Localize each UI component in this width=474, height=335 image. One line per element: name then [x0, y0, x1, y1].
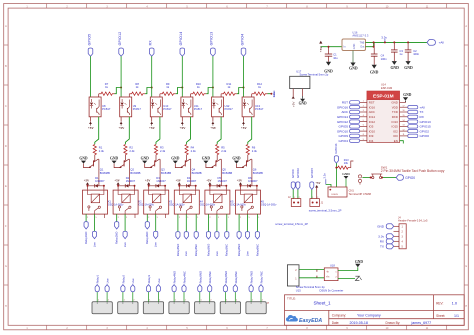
wire — [155, 155, 157, 160]
svg-text:2.4k: 2.4k — [221, 149, 227, 153]
wire collector — [190, 159, 192, 186]
svg-text:TXD: TXD — [392, 110, 398, 114]
svg-text:GND: GND — [391, 101, 397, 105]
wire relay pin — [146, 214, 148, 222]
svg-text:Live: Live — [245, 251, 249, 256]
diode D6 1N4007 — [241, 176, 259, 188]
svg-text:Terminal 3P 3.5MM: Terminal 3P 3.5MM — [349, 192, 371, 196]
svg-text:GPIO15: GPIO15 — [420, 125, 431, 129]
svg-text:Relay1NO: Relay1NO — [84, 232, 88, 244]
svg-text:+5V: +5V — [114, 179, 120, 183]
net flag Live — [105, 285, 109, 292]
svg-text:IO15: IO15 — [392, 125, 399, 129]
net flag RX — [149, 48, 154, 56]
net flag GPIO14 — [180, 48, 185, 56]
svg-text:100n: 100n — [381, 57, 387, 61]
pin 17 VDD — [392, 105, 398, 109]
svg-text:Screw Terminal 5mm 2p: Screw Terminal 5mm 2p — [300, 72, 329, 76]
wire — [292, 190, 294, 199]
svg-text:1N4007: 1N4007 — [248, 179, 258, 183]
svg-text:1N4007: 1N4007 — [95, 179, 105, 183]
svg-text:GPIO16: GPIO16 — [334, 143, 338, 154]
svg-text:5: 5 — [187, 217, 188, 219]
net flag RX (J4) — [380, 239, 394, 244]
wire — [124, 155, 126, 160]
transistor Q2 BC848B — [114, 159, 141, 175]
svg-text:1: 1 — [197, 217, 198, 219]
rev — [436, 301, 458, 306]
wire relay pin — [226, 214, 228, 232]
node column 1 net GPIO5 — [87, 34, 91, 46]
svg-text:EN: EN — [394, 139, 398, 143]
junction — [270, 93, 272, 95]
net flag Relay5NC — [208, 285, 212, 292]
svg-text:U18: U18 — [330, 263, 335, 267]
junction — [148, 185, 150, 187]
svg-text:1N4007: 1N4007 — [126, 179, 136, 183]
power +5V — [181, 122, 184, 124]
svg-text:Relay5NC: Relay5NC — [225, 244, 229, 256]
wire relay pin — [116, 214, 118, 222]
ground (C1) — [324, 62, 333, 74]
IC U14 ESP-01M module — [367, 91, 400, 143]
svg-text:1: 1 — [228, 217, 229, 219]
wire — [297, 190, 299, 199]
svg-text:1N4007: 1N4007 — [187, 179, 197, 183]
transistor Q1 BC848B — [84, 159, 111, 175]
power +5V — [89, 122, 92, 124]
capacitor C4 100n — [371, 42, 387, 64]
pin 3 ADC — [350, 110, 375, 114]
wire — [225, 186, 227, 190]
svg-text:TITLE:: TITLE: — [287, 297, 296, 301]
svg-text:BC848B: BC848B — [192, 171, 202, 175]
svg-text:RX: RX — [380, 240, 384, 244]
wire terminal pin — [148, 292, 150, 302]
svg-text:GND: GND — [110, 157, 119, 161]
wire relay pin — [238, 214, 240, 232]
wire relay pin — [185, 214, 187, 232]
wire terminal pin — [132, 292, 134, 302]
svg-text:2 Pin 3X4MM Tactile Tact Push: 2 Pin 3X4MM Tactile Tact Push Button cop… — [381, 169, 445, 173]
wire — [151, 56, 153, 97]
wire — [134, 186, 136, 190]
resistor R2 2.4k — [124, 144, 135, 154]
net label RST — [342, 101, 348, 105]
svg-text:2.4k: 2.4k — [129, 149, 135, 153]
resistor R13 10k — [336, 158, 349, 169]
svg-text:GND: GND — [403, 93, 411, 97]
svg-text:Relay3NO: Relay3NO — [145, 232, 149, 244]
svg-text:Live: Live — [154, 242, 158, 247]
connector terminal block J6 — [169, 302, 189, 314]
junction — [120, 87, 122, 89]
svg-text:Date:: Date: — [332, 321, 340, 325]
wire terminal pin — [106, 292, 108, 302]
net flag Relay3 — [146, 285, 150, 292]
net label GPIO4 — [339, 139, 349, 143]
wire relay pin — [195, 214, 197, 232]
svg-text:PC817: PC817 — [255, 107, 264, 111]
resistor R3 2.4k — [154, 144, 165, 154]
net flag Relay6NO — [237, 232, 241, 239]
svg-text:Sheet_1: Sheet_1 — [313, 301, 331, 306]
relay K4 G5Q-1A-005v — [174, 190, 216, 214]
wire — [209, 185, 211, 190]
svg-text:2: 2 — [317, 197, 318, 199]
svg-text:GPIO4: GPIO4 — [339, 139, 349, 143]
wire jog — [316, 270, 318, 272]
svg-text:+5V: +5V — [88, 126, 95, 130]
svg-text:1: 1 — [98, 300, 99, 302]
junction — [178, 185, 180, 187]
svg-text:GND: GND — [370, 70, 379, 74]
svg-text:ESP-01M: ESP-01M — [381, 86, 392, 90]
wire — [248, 117, 252, 144]
net label GPIO13 — [420, 120, 431, 124]
svg-text:Relay3: Relay3 — [147, 275, 151, 284]
transistor Q3 BC848B — [145, 159, 172, 175]
wire — [128, 94, 130, 97]
pin 12 IO2 — [393, 129, 398, 133]
connector U17 Screw Terminal 5mm 2p — [290, 69, 329, 97]
svg-text:+5V: +5V — [206, 179, 212, 183]
svg-text:2: 2 — [210, 300, 211, 302]
svg-text:BC848B: BC848B — [222, 171, 232, 175]
title block frame — [285, 295, 465, 326]
svg-text:Relay7NC: Relay7NC — [260, 271, 264, 283]
svg-text:GPIO9: GPIO9 — [291, 169, 295, 178]
net label ADC — [341, 110, 348, 114]
junction — [407, 41, 409, 43]
svg-text:1: 1 — [226, 300, 227, 302]
svg-text:PC817: PC817 — [133, 107, 142, 111]
relay K2 G5Q-1A-005v — [113, 190, 155, 214]
svg-text:ESP-01M: ESP-01M — [373, 93, 394, 99]
transistor Q4 BC848B — [175, 159, 202, 175]
pin 10 EN — [394, 139, 398, 143]
net flag (J2 pin1) — [291, 182, 295, 190]
connector terminal block J3 — [92, 302, 112, 314]
svg-text:2: 2 — [118, 217, 119, 219]
svg-text:GPIO2: GPIO2 — [420, 129, 430, 133]
wire terminal pin — [260, 292, 262, 302]
svg-text:2.4k: 2.4k — [160, 149, 166, 153]
svg-text:+5V: +5V — [292, 102, 296, 107]
svg-text:G5Q-1A-005v: G5Q-1A-005v — [261, 204, 277, 207]
wire — [326, 185, 331, 188]
svg-text:3.3v: 3.3v — [322, 173, 326, 179]
wire — [256, 186, 258, 190]
net flag Relay4NC — [182, 285, 186, 292]
net label GPIO9 — [339, 134, 349, 138]
op-amp U11 optocoupler PC817 — [181, 97, 203, 117]
wire — [311, 190, 313, 199]
wire — [98, 94, 100, 97]
title text — [287, 297, 296, 301]
wire relay pin — [256, 214, 258, 232]
svg-text:PC817: PC817 — [102, 107, 111, 111]
resistor R11 — [221, 82, 237, 95]
pin 1 RST — [350, 101, 375, 105]
junction — [134, 185, 136, 187]
wire — [321, 46, 342, 48]
junction — [212, 87, 214, 89]
net label GPIO0 — [420, 134, 430, 138]
diode D3 1N4007 — [149, 176, 167, 188]
wire — [181, 56, 183, 97]
svg-text:C: C — [465, 105, 467, 108]
svg-text:BC848B: BC848B — [253, 171, 263, 175]
node column 3 net RX — [149, 40, 153, 46]
svg-text:TAB: TAB — [360, 42, 365, 45]
wire terminal pin — [157, 292, 159, 302]
svg-text:VDD: VDD — [392, 105, 398, 109]
svg-text:6: 6 — [363, 125, 364, 127]
wire — [156, 117, 160, 144]
svg-text:1.0: 1.0 — [452, 301, 458, 306]
svg-text:GND: GND — [349, 67, 358, 71]
connector J2 screw_terminal_3.5mm_2P — [288, 196, 301, 207]
svg-text:2: 2 — [240, 217, 241, 219]
svg-text:10k: 10k — [344, 161, 349, 165]
svg-text:james_6977: james_6977 — [411, 321, 432, 325]
connector terminal block J9 — [246, 302, 266, 314]
svg-text:2: 2 — [179, 217, 180, 219]
wire — [120, 56, 122, 97]
svg-text:IO0: IO0 — [393, 134, 398, 138]
svg-text:GND: GND — [299, 102, 307, 106]
svg-text:1: 1 — [258, 217, 259, 219]
net flag Relay6NC — [255, 232, 259, 239]
net label 3.3v (CN1) — [322, 173, 326, 185]
wire terminal pin — [96, 292, 98, 302]
net label GPIO14 — [337, 115, 348, 119]
junction — [373, 41, 375, 43]
svg-text:Relay4NO: Relay4NO — [173, 271, 177, 283]
svg-text:Header-Female 0.54_1x5: Header-Female 0.54_1x5 — [398, 219, 428, 223]
net flag Relay3NO — [145, 222, 149, 229]
svg-text:Live: Live — [92, 242, 96, 247]
svg-text:+5V: +5V — [237, 179, 243, 183]
pin 8 IO9 — [350, 134, 374, 138]
svg-text:G: G — [465, 265, 467, 268]
svg-text:+5V: +5V — [315, 181, 321, 185]
wire — [145, 88, 152, 94]
label Screw Terminal 5mm 2p (U15) — [296, 285, 325, 292]
svg-text:GND: GND — [232, 157, 241, 161]
svg-text:DSUN: DSUN — [332, 194, 339, 196]
net flag Live — [184, 232, 188, 239]
svg-text:+5V: +5V — [176, 179, 182, 183]
power +5V (J1 pin2) — [315, 181, 321, 198]
svg-text:4: 4 — [363, 115, 364, 117]
diode D2 1N4007 — [118, 176, 136, 188]
svg-text:IO4: IO4 — [369, 139, 374, 143]
svg-text:GPIO12: GPIO12 — [337, 120, 348, 124]
wire relay pin — [124, 214, 126, 231]
voltage regulator U16 AMS1117-3.3 — [342, 30, 369, 62]
svg-text:1N4007: 1N4007 — [156, 179, 166, 183]
svg-text:2.4k: 2.4k — [191, 149, 197, 153]
wire — [240, 185, 242, 190]
relay K5 G5Q-1A-005v — [205, 190, 247, 214]
svg-text:H: H — [465, 305, 467, 308]
ground — [79, 157, 88, 164]
svg-text:GND: GND — [404, 66, 413, 70]
svg-text:IO2: IO2 — [393, 129, 398, 133]
svg-text:RX: RX — [149, 40, 153, 46]
svg-text:DSUN 5v Converter: DSUN 5v Converter — [320, 289, 344, 293]
ground (U16) — [349, 63, 358, 71]
wire — [115, 88, 122, 94]
svg-text:Live: Live — [106, 278, 110, 283]
wire — [299, 269, 324, 271]
wire collector — [159, 159, 161, 186]
svg-text:screw_terminal_3.5mm_2P: screw_terminal_3.5mm_2P — [309, 208, 342, 212]
svg-text:Relay6NO: Relay6NO — [237, 244, 241, 256]
svg-text:G5Q-1A-005v: G5Q-1A-005v — [169, 204, 185, 207]
net flag GPIO12 — [119, 48, 124, 56]
net flag 3.3v (J4) — [378, 234, 394, 239]
pin 11 IO0 — [393, 134, 398, 138]
svg-text:+All: +All — [420, 105, 426, 109]
op-amp U13 optocoupler PC817 — [242, 97, 264, 117]
relay K6 G5Q-1A-005v — [236, 190, 278, 214]
pin 2 IO16 — [350, 105, 376, 109]
wire terminal pin — [122, 292, 124, 302]
net flag GPIO16 — [334, 156, 338, 163]
svg-text:Your Company: Your Company — [357, 314, 381, 318]
net label GPIO2 — [420, 129, 430, 133]
resistor R7 — [99, 82, 115, 95]
ground (U17 pin2) — [302, 96, 304, 99]
svg-text:GND: GND — [141, 157, 150, 161]
svg-text:GPIO0: GPIO0 — [405, 176, 415, 180]
net flag Relay5NC — [225, 232, 229, 239]
power +5V — [120, 122, 123, 124]
label DSUN 5v Converter — [320, 289, 344, 293]
wire — [125, 117, 129, 144]
wire — [190, 94, 192, 97]
wire — [95, 117, 99, 144]
power +5V (U17 pin1) — [292, 96, 296, 107]
svg-text:GPIO10: GPIO10 — [296, 167, 300, 178]
svg-text:GND: GND — [355, 260, 363, 264]
svg-text:+5V: +5V — [180, 126, 187, 130]
svg-text:3.3v: 3.3v — [272, 92, 276, 98]
svg-text:ADC: ADC — [341, 110, 348, 114]
svg-text:2: 2 — [185, 300, 186, 302]
pin 15 RXD — [392, 115, 398, 119]
junction — [381, 177, 383, 179]
svg-text:11: 11 — [403, 134, 405, 136]
net flag 3.3v (resistor chain) — [272, 91, 276, 98]
diode D5 1N4007 — [210, 176, 228, 188]
svg-text:G5Q-1A-005v: G5Q-1A-005v — [139, 204, 155, 207]
svg-text:PC817: PC817 — [163, 107, 172, 111]
svg-text:GND: GND — [377, 225, 385, 229]
net flag GPIO5 — [88, 48, 93, 56]
net flag GPIO4 — [241, 48, 246, 56]
svg-text:RST: RST — [369, 101, 375, 105]
svg-text:7: 7 — [363, 129, 364, 131]
power +5V flag (regulator input) — [319, 41, 323, 52]
svg-text:H: H — [5, 305, 7, 308]
switch SW1 tact button — [362, 165, 444, 178]
svg-text:1: 1 — [175, 300, 176, 302]
junction — [335, 167, 337, 169]
transistor Q5 BC848B — [206, 159, 233, 175]
wire collector — [129, 159, 131, 186]
wire — [164, 186, 166, 190]
svg-text:1: 1 — [149, 300, 150, 302]
svg-text:GPIO16: GPIO16 — [337, 105, 348, 109]
wire relay pin — [177, 214, 179, 232]
svg-text:+5V: +5V — [241, 126, 248, 130]
net label GPIO15 — [420, 125, 431, 129]
relay K1 G5Q-1A-005v — [83, 190, 125, 214]
svg-text:Drawn By:: Drawn By: — [386, 321, 401, 325]
ground — [110, 157, 119, 164]
net flag Relay4NO — [176, 232, 180, 239]
svg-text:5: 5 — [249, 217, 250, 219]
svg-text:Relay6NC: Relay6NC — [234, 271, 238, 283]
svg-text:EasyEDA: EasyEDA — [299, 318, 322, 324]
power +5V — [176, 179, 182, 185]
svg-text:GPIO15: GPIO15 — [310, 167, 314, 178]
EasyEDA logo — [286, 315, 322, 324]
ground (C4) — [370, 65, 379, 75]
ground — [202, 157, 211, 164]
resistor R5 2.4k — [216, 144, 227, 154]
junction — [117, 185, 119, 187]
svg-text:IO10: IO10 — [369, 129, 376, 133]
relay pin stub — [103, 214, 105, 218]
wire — [178, 185, 180, 190]
wire (Out join) — [366, 42, 374, 46]
svg-text:100n: 100n — [413, 52, 419, 56]
svg-text:5: 5 — [96, 217, 97, 219]
svg-text:17: 17 — [403, 105, 405, 107]
pin 4 IO14 — [350, 115, 376, 119]
svg-text:IO9: IO9 — [369, 134, 374, 138]
wire — [87, 185, 89, 190]
transistor Q6 BC848B — [237, 159, 264, 175]
svg-text:8: 8 — [363, 134, 364, 136]
wire — [187, 117, 191, 144]
connector 2pin (to SW1) — [358, 175, 361, 185]
wire terminal pin — [183, 292, 185, 302]
connector CN1 Terminal 3P 3.5MM — [328, 187, 371, 197]
svg-text:1: 1 — [124, 300, 125, 302]
net flag Relay2 — [121, 285, 125, 292]
ground (U18 out) — [355, 260, 363, 267]
svg-text:AMS1117-3.3: AMS1117-3.3 — [352, 34, 369, 38]
svg-text:Relay7NO: Relay7NO — [250, 271, 254, 283]
svg-text:2: 2 — [210, 217, 211, 219]
net label GPIO10 — [337, 129, 348, 133]
node column 5 net GPIO13 — [210, 32, 214, 46]
company row — [332, 314, 381, 318]
svg-text:GPIO9: GPIO9 — [339, 134, 349, 138]
svg-text:RX: RX — [420, 115, 424, 119]
svg-text:1: 1 — [294, 197, 295, 199]
op-amp U10 optocoupler PC817 — [150, 97, 172, 117]
wire relay pin — [85, 214, 87, 222]
wire — [243, 56, 245, 97]
svg-text:2.4k: 2.4k — [99, 149, 105, 153]
